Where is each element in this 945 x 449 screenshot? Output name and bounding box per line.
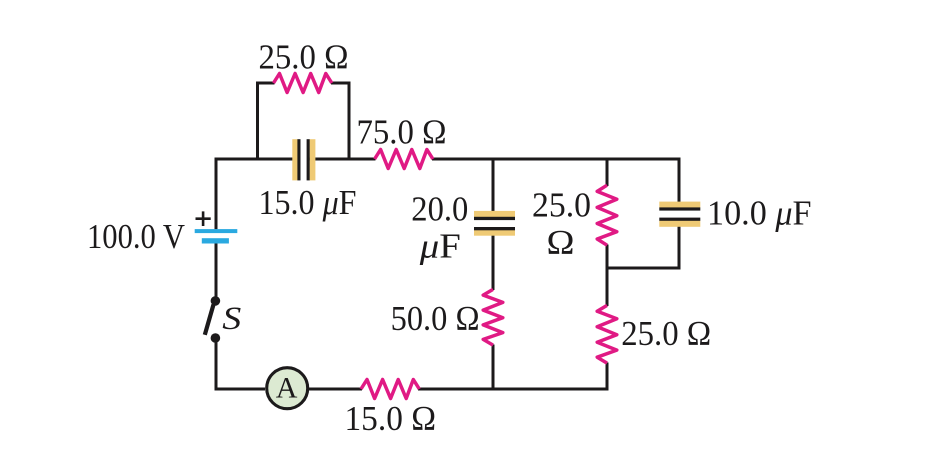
wire: top wire from R2 to top-right corner (432, 158, 679, 161)
svg-text:15.0 μF: 15.0 μF (259, 183, 357, 222)
svg-text:50.0 Ω: 50.0 Ω (391, 299, 480, 338)
wire: middle branch upper lead to C3 (492, 159, 495, 217)
resistor R1 25.0 ohm (top loop) (259, 37, 349, 92)
capacitor C2 15.0 uF (yellow highlight plates) (259, 139, 357, 222)
resistor R5 15.0 ohm (bottom wire) (345, 380, 437, 438)
wire: bottom wire from R5 to bottom-right corner (418, 388, 607, 391)
wire: parallel loop left vertical and top-left (258, 83, 275, 161)
svg-text:20.0: 20.0 (411, 190, 468, 229)
svg-text:10.0 μF: 10.0 μF (707, 194, 812, 233)
wire: bottom wire ammeter to R5 (308, 388, 362, 391)
wire: node horizontal to right branch bottom (606, 267, 681, 270)
capacitor C1 10.0 uF (right branch) (659, 194, 811, 233)
resistor R4 25.0 ohm (branch2 upper) (532, 185, 617, 262)
ammeter A (267, 368, 308, 409)
svg-text:25.0: 25.0 (532, 185, 591, 224)
wire: middle branch below R3 to bottom wire (492, 345, 495, 390)
wire: right branch top lead to C1 (679, 159, 681, 207)
svg-text:100.0 V: 100.0 V (87, 217, 185, 256)
resistor R2 75.0 ohm (top wire) (357, 112, 447, 168)
switch S (205, 296, 242, 343)
battery 100.0 V (87, 211, 237, 256)
wire: branch2 between R4 and node (606, 245, 609, 307)
wire: branch2 top lead to R4 (606, 159, 609, 186)
wire: branch2 below R6 to bottom-right corner (606, 363, 609, 391)
wire: middle branch between C3 and R3 (492, 230, 495, 290)
svg-text:S: S (222, 301, 241, 337)
wire: left vertical top segment (battery top lead) (215, 159, 217, 229)
svg-text:25.0 Ω: 25.0 Ω (621, 314, 711, 353)
capacitor C3 20.0 uF (middle branch) (411, 190, 515, 266)
wire: right branch below C1 to node wire (678, 221, 681, 270)
svg-text:Ω: Ω (547, 223, 575, 262)
resistor R6 25.0 ohm (branch2 lower) (597, 305, 711, 363)
svg-text:75.0 Ω: 75.0 Ω (357, 112, 447, 151)
resistor R3 50.0 ohm (middle branch) (391, 289, 503, 345)
svg-text:A: A (276, 371, 298, 404)
wire: top wire from left corner to C2 left plate (216, 158, 297, 161)
wire: top wire from C2 right plate to R2 (308, 158, 375, 161)
svg-text:15.0 Ω: 15.0 Ω (345, 399, 437, 438)
wire: parallel loop right side (331, 83, 349, 161)
wire: battery bottom lead to switch (215, 243, 218, 296)
svg-text:μF: μF (419, 226, 461, 265)
wire: switch to bottom-left corner (216, 338, 265, 389)
svg-text:25.0 Ω: 25.0 Ω (259, 37, 349, 76)
